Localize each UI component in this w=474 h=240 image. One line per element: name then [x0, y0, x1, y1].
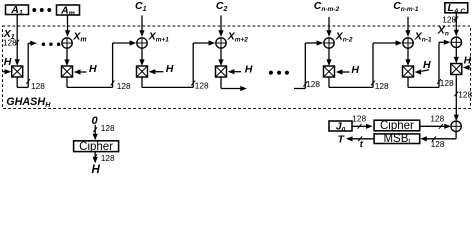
svg-text:128: 128 — [3, 37, 17, 47]
wire XOR to multiplier Xn-1 — [407, 48, 409, 61]
wire XOR to multiplier Xm+1 — [141, 48, 143, 61]
bus width 128 on J0 wire — [358, 124, 362, 129]
wire XOR to multiplier Xm+2 — [220, 48, 222, 61]
svg-text:128: 128 — [195, 81, 209, 91]
bus width 128 after Xm mult — [111, 81, 115, 86]
svg-text:128: 128 — [431, 139, 445, 149]
wire 0 to Cipher — [94, 125, 96, 135]
block MSBt — [374, 134, 420, 144]
wire Xn-1 mult output to Xn — [407, 77, 409, 87]
multiplier Xm — [62, 66, 73, 77]
svg-text:H: H — [245, 63, 253, 75]
wire H into Xn-2 multiplier — [341, 71, 349, 73]
block Cipher (H generation) — [74, 141, 119, 152]
wire into XOR Xn-2 — [294, 88, 305, 90]
svg-text:Cipher: Cipher — [79, 141, 113, 153]
wire LAC to XOR Xn — [455, 13, 457, 33]
block LAC — [445, 3, 468, 13]
svg-text:C1: C1 — [135, 0, 147, 13]
tag XOR — [451, 121, 461, 131]
svg-text:128: 128 — [430, 113, 444, 123]
wire Xm mult output to Xm+1 — [66, 77, 68, 87]
multiplier for X1 — [12, 66, 23, 77]
wire J0 to Cipher — [352, 125, 367, 127]
block A1 — [6, 5, 29, 15]
svg-text:H: H — [166, 63, 174, 75]
svg-text:128: 128 — [31, 81, 45, 91]
XOR Xn-1 — [403, 38, 413, 48]
svg-text:Xm+2: Xm+2 — [227, 30, 249, 43]
wire MSB to T — [352, 138, 375, 140]
bus width t on T wire — [358, 136, 362, 141]
XOR Xm+1 — [137, 38, 147, 48]
wire tag XOR to MSB — [455, 132, 457, 139]
svg-text:MSBt: MSBt — [383, 133, 410, 146]
wire Cipher to tag XOR — [420, 125, 446, 127]
bus width 128 on cipher-xor wire — [439, 124, 443, 129]
svg-text:Cn-m-1: Cn-m-1 — [393, 0, 419, 13]
wire H into Xm+1 multiplier — [154, 71, 163, 73]
chain dots between Xm+2 and Xn-2 — [269, 71, 272, 74]
svg-text:GHASHH: GHASHH — [6, 96, 51, 109]
chain dots before Xm — [42, 43, 45, 46]
svg-text:Xn-1: Xn-1 — [414, 30, 432, 43]
svg-text:H: H — [351, 64, 359, 76]
wire H into Xn-1 multiplier — [422, 70, 430, 72]
bus width 128 on A1 wire — [15, 40, 19, 45]
wire Cn-m-2 to XOR Xn-2 — [328, 17, 330, 32]
multiplier Xm+1 — [137, 66, 148, 77]
wire H into first multiplier — [3, 71, 7, 73]
XOR Xn — [451, 37, 461, 47]
bus width 128 on GHASH output — [454, 91, 458, 96]
wire C2 to XOR Xm+2 — [220, 15, 222, 31]
GHASH dashed boundary box — [3, 26, 471, 109]
svg-text:Cipher: Cipher — [380, 120, 414, 132]
wire H into Xm+2 multiplier — [233, 71, 241, 73]
svg-text:Xn: Xn — [437, 25, 449, 38]
svg-text:H: H — [89, 63, 97, 75]
svg-text:Xm: Xm — [72, 30, 86, 43]
wire Xm+1 mult output to Xm+2 — [141, 77, 143, 87]
svg-text:H: H — [464, 55, 472, 66]
bus width 128 after Xn-2 mult — [371, 81, 375, 86]
svg-text:128: 128 — [375, 81, 389, 91]
svg-text:T: T — [338, 134, 346, 146]
svg-text:H: H — [4, 56, 12, 68]
multiplier Xn-2 — [324, 66, 335, 77]
wire XOR to multiplier Xn-2 — [328, 48, 330, 61]
bus width 128 after Xn-1 mult — [437, 79, 441, 84]
wire X1 mult output to chain — [16, 77, 18, 87]
XOR Xm — [62, 38, 72, 48]
wire A1 to multiplier — [16, 15, 18, 61]
multiplier Xn-1 — [403, 66, 414, 77]
wire Am to XOR Xm — [67, 15, 69, 32]
svg-text:128: 128 — [352, 113, 366, 123]
svg-text:C2: C2 — [216, 0, 228, 13]
svg-text:128: 128 — [101, 123, 115, 133]
bus width 128 on H wire — [93, 154, 97, 159]
dots between A1 and Am — [33, 9, 36, 12]
block J0 — [329, 121, 352, 131]
svg-text:128: 128 — [442, 15, 456, 25]
bus width 128 after X1 mult — [26, 79, 30, 84]
block Am — [57, 5, 80, 15]
wire Xm+2 mult output stub — [220, 77, 222, 89]
bus width 128 on xor-msb wire — [432, 136, 436, 141]
multiplier Xm+2 — [216, 66, 227, 77]
wire XOR to multiplier Xn — [455, 48, 457, 59]
svg-text:Xm+1: Xm+1 — [148, 30, 170, 43]
bus width 128 on LAC wire — [454, 16, 458, 21]
svg-text:128: 128 — [458, 89, 472, 99]
wire H into Xm multiplier — [79, 71, 86, 73]
wire XOR to multiplier Xm — [66, 48, 68, 61]
wire H into Xn multiplier — [468, 67, 470, 69]
block Cipher (tag) — [374, 120, 420, 131]
svg-text:128: 128 — [101, 153, 115, 163]
wire Cipher to H — [94, 152, 96, 158]
XOR Xm+2 — [216, 38, 226, 48]
bus width 128 on 0 wire — [93, 127, 97, 132]
svg-text:128: 128 — [306, 79, 320, 89]
multiplier Xn — [451, 64, 462, 75]
wire Xn mult output (GHASH output) — [455, 75, 457, 117]
svg-text:Cn-m-2: Cn-m-2 — [314, 0, 340, 13]
wire Xn-2 mult output to Xn-1 — [328, 77, 330, 87]
svg-text:H: H — [92, 164, 101, 175]
svg-text:Xn-2: Xn-2 — [335, 30, 353, 43]
svg-text:H: H — [423, 59, 431, 71]
wire Cn-m-1 to XOR Xn-1 — [407, 17, 409, 32]
XOR Xn-2 — [324, 38, 334, 48]
wire C1 to XOR Xm+1 — [141, 15, 143, 31]
svg-text:128: 128 — [440, 78, 454, 88]
svg-text:t: t — [360, 139, 364, 150]
bus width 128 into Xn-2 — [303, 82, 307, 87]
svg-text:128: 128 — [117, 81, 131, 91]
bus width 128 after Xm+1 mult — [191, 81, 195, 86]
